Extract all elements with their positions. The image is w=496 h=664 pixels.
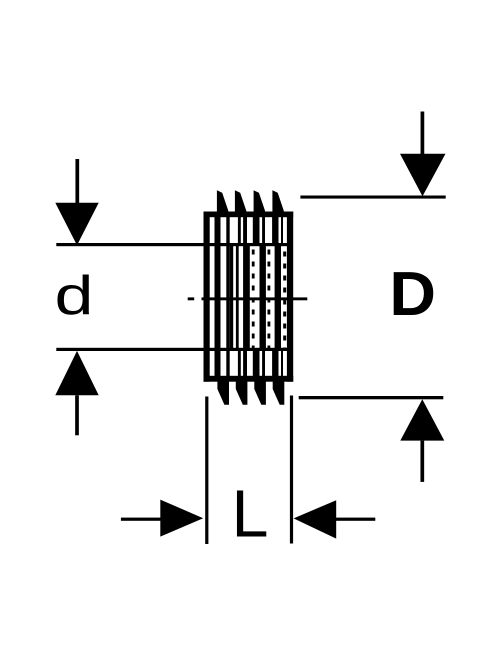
thread crest fin bottom 2: [236, 378, 248, 405]
thread crest fin top 2: [235, 190, 246, 217]
thread crest fin bottom 4: [273, 378, 285, 405]
extension line D lower (horizontal): [299, 396, 444, 399]
extension line L left (vertical): [205, 397, 208, 545]
extension line L right (vertical): [290, 396, 293, 544]
external thread line upper band 2: [253, 213, 260, 246]
extension line D upper (horizontal): [300, 196, 445, 199]
center line left dash: [188, 297, 195, 300]
arrow d lower (up): [55, 351, 98, 435]
external thread line upper band 5: [281, 213, 283, 246]
external thread line upper band 3: [262, 213, 265, 246]
internal bore line mid band 1: [230, 246, 234, 350]
arrow D lower (up): [400, 399, 444, 482]
thread root line full height 1: [215, 213, 221, 379]
internal bore line mid band 4: [260, 246, 266, 350]
thread crest fin top 1: [217, 190, 228, 217]
arrow L right (left-pointing): [294, 500, 376, 538]
thread crest fin bottom 3: [254, 378, 266, 405]
external thread line upper band 1: [238, 213, 241, 246]
dimension line d lower (horizontal): [56, 348, 291, 351]
svg-text:d: d: [55, 264, 94, 326]
dimension line d upper (horizontal): [56, 243, 291, 246]
arrow D upper (down): [400, 112, 446, 197]
internal bore line mid band 3: [247, 246, 250, 350]
arrow d upper (down): [55, 159, 98, 245]
external thread line lower band 5: [281, 350, 283, 380]
fitting body outline: [204, 212, 294, 382]
hidden thread line 1 (dashed): [252, 250, 255, 352]
internal bore line mid band 2: [236, 246, 239, 350]
center line main segment: [202, 297, 308, 300]
thread crest fin top 3: [254, 190, 265, 217]
hidden thread line 3 (dashed): [283, 252, 286, 352]
external thread line upper band 4: [272, 213, 278, 246]
svg-text:D: D: [389, 259, 436, 329]
external thread line lower band 4: [272, 350, 278, 380]
thread crest fin bottom 1: [217, 378, 229, 405]
thread crest fin top 4: [272, 190, 283, 217]
thread root line full height 2: [226, 213, 229, 379]
external thread line lower band 2: [253, 350, 260, 380]
external thread line lower band 1: [238, 350, 241, 380]
svg-text:L: L: [232, 478, 269, 552]
internal bore line mid band 5: [275, 246, 281, 350]
hidden thread line 2 (dashed): [267, 250, 270, 352]
external thread line lower band 3: [262, 350, 265, 380]
thread root line full height 3: [243, 213, 247, 379]
arrow L left (right-pointing): [121, 500, 203, 537]
